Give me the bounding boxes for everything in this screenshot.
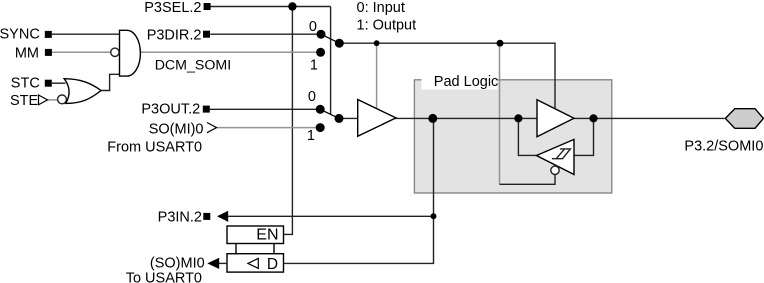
svg-text:DCM_SOMI: DCM_SOMI — [155, 58, 231, 74]
or-gate O1 input bubble (STE) — [58, 95, 67, 104]
wire (SO)MI0 arrow stub — [219, 262, 227, 264]
node junction P3IN tap — [431, 213, 437, 219]
svg-text:P3DIR.2: P3DIR.2 — [147, 27, 202, 43]
svg-text:From USART0: From USART0 — [107, 140, 202, 156]
wire direction line from mux1 output to pad drivers — [339, 43, 555, 110]
register bit square MM — [45, 49, 52, 56]
wire SYNC input — [52, 33, 120, 35]
and-gate A1 (3-input, MM inverted) — [120, 30, 141, 76]
arrow to (SO)MI0 — [207, 258, 219, 269]
svg-text:SO(MI)0: SO(MI)0 — [149, 122, 204, 138]
svg-text:MM: MM — [15, 45, 39, 61]
node junction pad line / P3IN tap — [428, 114, 437, 123]
mux M2 input 1 dot — [316, 123, 325, 132]
svg-text:1: Output: 1: Output — [357, 17, 417, 33]
schmitt trigger U3 hysteresis symbol — [552, 149, 571, 159]
wire main pad line — [339, 117, 724, 119]
svg-text:1: 1 — [307, 128, 315, 144]
mux M2 output dot — [335, 114, 344, 123]
pad logic label background — [422, 68, 498, 90]
node junction on P3SEL.2 — [288, 2, 296, 10]
wire input buffer enable vertical (gray) — [499, 43, 501, 184]
svg-text:1: 1 — [310, 58, 318, 74]
svg-text:SYNC: SYNC — [0, 27, 40, 43]
svg-text:(SO)MI0: (SO)MI0 — [150, 256, 205, 272]
wire DCM_SOMI from AND gate to mux1 input 1 — [140, 51, 320, 53]
pad hexagon P3.2/SOMI0 — [725, 109, 763, 129]
svg-text:EN: EN — [256, 226, 278, 243]
svg-text:STE: STE — [10, 93, 39, 109]
svg-text:Pad Logic: Pad Logic — [434, 74, 499, 90]
latch EN box left stub — [235, 244, 237, 254]
node junction on direction line — [497, 40, 504, 47]
node junction Schmitt output — [514, 114, 522, 122]
wire STC input — [52, 82, 66, 84]
SO(MI)0 module output chevron — [207, 123, 217, 133]
svg-text:P3IN.2: P3IN.2 — [158, 209, 202, 225]
wire SO(MI)0 from USART0 to mux2 input 1 — [217, 127, 321, 129]
mux M1 direction select — [316, 30, 344, 57]
wire P3DIR.2 to mux1 input 0 — [210, 33, 321, 35]
wire P3IN.2 line — [228, 215, 434, 217]
mux M2 lever — [320, 109, 339, 118]
latch D box — [227, 254, 284, 272]
schmitt trigger U3 input buffer — [537, 139, 575, 174]
wire P3SEL.2 select vertical to muxes — [330, 7, 332, 115]
register bit square P3DIR.2 — [203, 31, 210, 38]
mux M1 lever — [321, 34, 339, 43]
svg-text:D: D — [267, 256, 278, 273]
register bit square P3SEL.2 — [204, 3, 211, 10]
register bit square P3IN.2 — [203, 213, 210, 220]
svg-text:P3OUT.2: P3OUT.2 — [141, 102, 200, 118]
wire OR gate output up to AND gate input — [101, 74, 120, 90]
wire P3SEL.2 horizontal — [211, 6, 331, 8]
or-gate O1 — [64, 79, 101, 104]
register bit square SYNC — [45, 31, 52, 38]
svg-text:P3.2/SOMI0: P3.2/SOMI0 — [684, 139, 763, 155]
svg-text:To USART0: To USART0 — [126, 271, 202, 283]
wire output driver enable (gray) — [376, 43, 378, 109]
svg-text:0: Input: 0: Input — [357, 0, 405, 16]
wire Schmitt trigger input from pad — [574, 118, 594, 155]
wire input buffer enable bottom run to bubble — [500, 172, 556, 184]
mux M1 output dot — [335, 39, 344, 48]
schmitt trigger U3 enable bubble — [551, 166, 559, 174]
node junction Schmitt input — [589, 114, 597, 122]
wire tap to P3IN and input latch — [284, 118, 434, 263]
latch D clock triangle — [248, 258, 258, 268]
wire P3OUT.2 to mux2 input 0 — [210, 108, 321, 110]
schmitt trigger U3 hysteresis inner diagonal — [556, 149, 564, 159]
wire Schmitt trigger output to pad-side line — [518, 118, 536, 155]
pad logic box — [414, 80, 611, 193]
svg-text:P3SEL.2: P3SEL.2 — [144, 0, 201, 16]
node junction direction/enable — [374, 40, 380, 46]
arrow to P3IN.2 — [217, 211, 228, 222]
mux M2 input 0 dot — [316, 105, 325, 114]
and-gate A1 input bubble (MM) — [111, 48, 119, 56]
wire MM input (to bubble) — [52, 51, 111, 53]
wire STE input (to bubble) — [48, 99, 58, 101]
mux M1 input 0 dot — [317, 30, 326, 39]
register bit square STC — [45, 80, 52, 87]
buffer U2 pad output driver — [537, 100, 574, 137]
svg-text:0: 0 — [309, 19, 317, 35]
svg-text:STC: STC — [11, 76, 40, 92]
mux M1 input 1 dot — [316, 48, 325, 57]
mux M2 output select — [316, 105, 344, 132]
register bit square P3OUT.2 — [203, 106, 210, 113]
buffer U1 output driver (tri-state) — [358, 100, 396, 137]
STE module input triangle — [39, 95, 48, 105]
latch EN box right stub — [273, 244, 275, 254]
svg-text:0: 0 — [308, 89, 316, 105]
wire P3SEL.2 branch down to EN latch — [284, 7, 293, 235]
latch EN box — [227, 226, 284, 244]
